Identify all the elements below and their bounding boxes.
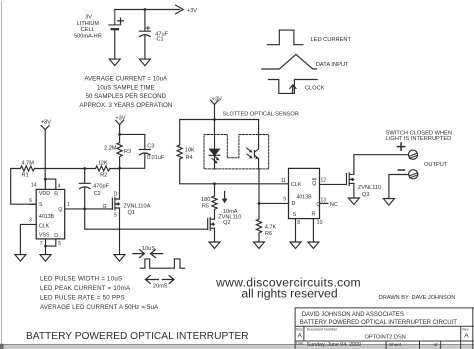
svg-text:500mA-HR: 500mA-HR bbox=[74, 33, 102, 39]
svg-text:1: 1 bbox=[67, 202, 70, 208]
svg-text:4.7K: 4.7K bbox=[265, 225, 277, 231]
svg-text:Rev: Rev bbox=[462, 327, 469, 331]
wire top rail +3V bbox=[115, 9, 180, 11]
svg-text:S: S bbox=[39, 202, 43, 208]
current arrow 10mA bbox=[224, 192, 226, 200]
svg-text:LED CURRENT: LED CURRENT bbox=[311, 37, 352, 43]
ground (R6) bbox=[254, 242, 265, 249]
wire +3V to sensor rail bbox=[214, 105, 216, 120]
svg-text:CLOCK: CLOCK bbox=[305, 85, 325, 91]
power arrow +3V (above R3) bbox=[116, 120, 124, 124]
ground (battery) bbox=[109, 59, 120, 66]
svg-text:Q2: Q2 bbox=[223, 220, 230, 226]
battery B1 3V lithium cell bbox=[109, 10, 121, 25]
svg-text:Q: Q bbox=[312, 181, 316, 187]
waveform DATA INPUT bbox=[262, 54, 317, 69]
resistor R5 180 bbox=[212, 184, 217, 210]
svg-text:BATTERY POWERED OPTICAL INTERR: BATTERY POWERED OPTICAL INTERRUPTER bbox=[26, 331, 249, 342]
wire pins 14/4 bracket bbox=[45, 179, 56, 189]
svg-text:A: A bbox=[298, 333, 303, 340]
svg-text:14: 14 bbox=[31, 183, 37, 189]
svg-text:AVERAGE LED CURRENT A 50Hz = 5: AVERAGE LED CURRENT A 50Hz = 5uA bbox=[40, 304, 159, 311]
svg-text:LIGHT IS INTERRUPTED: LIGHT IS INTERRUPTED bbox=[386, 136, 452, 142]
svg-text:LED PULSE RATE = 50 PPS: LED PULSE RATE = 50 PPS bbox=[40, 295, 125, 302]
wire pin10 to ground bbox=[312, 219, 314, 242]
svg-text:4013B: 4013B bbox=[296, 195, 312, 201]
svg-text:LITHIUM: LITHIUM bbox=[77, 21, 100, 27]
svg-text:Date: Date bbox=[296, 342, 304, 346]
waveform pulse train annotation bbox=[140, 259, 185, 268]
svg-text:Sunday, June 04, 2000: Sunday, June 04, 2000 bbox=[307, 342, 361, 348]
svg-text:DRAWN BY: DAVE JOHNSON: DRAWN BY: DAVE JOHNSON bbox=[379, 295, 455, 301]
svg-text:NC: NC bbox=[330, 202, 338, 208]
wire Q3 source to ground bbox=[353, 183, 355, 198]
waveform LED CURRENT bbox=[267, 30, 303, 45]
resistor R4 10K bbox=[177, 145, 182, 159]
title block table bbox=[295, 308, 474, 349]
ground (pin8) bbox=[290, 242, 301, 249]
svg-text:10uS SAMPLE TIME: 10uS SAMPLE TIME bbox=[97, 84, 155, 91]
svg-text:A: A bbox=[464, 333, 469, 340]
ground (output -) bbox=[383, 199, 394, 206]
svg-text:Size: Size bbox=[296, 327, 303, 331]
transistor Q1 ZVNL110A bbox=[112, 197, 119, 210]
LED D1 in sensor bbox=[214, 120, 216, 150]
IC U1B 4013B box bbox=[289, 168, 320, 218]
wire +3V to VDD bracket bbox=[44, 130, 46, 179]
svg-text:50 SAMPLES PER SECOND: 50 SAMPLES PER SECOND bbox=[86, 93, 167, 100]
svg-text:C2: C2 bbox=[94, 191, 101, 197]
svg-text:10uS: 10uS bbox=[142, 246, 155, 252]
node R3 top junction bbox=[118, 133, 121, 136]
capacitor C3 0.01uF bbox=[120, 150, 151, 169]
wire R3 top to C3 bbox=[120, 134, 145, 149]
svg-text:VDD: VDD bbox=[39, 191, 50, 197]
svg-text:DAVID JOHNSON AND ASSOCIATES: DAVID JOHNSON AND ASSOCIATES bbox=[302, 312, 404, 318]
svg-text:LED PULSE WIDTH = 10uS: LED PULSE WIDTH = 10uS bbox=[40, 275, 122, 282]
svg-text:Q1: Q1 bbox=[128, 210, 135, 216]
svg-text:G: G bbox=[102, 204, 106, 210]
wire Q3 drain to + terminal bbox=[354, 155, 409, 175]
wire pin8 to ground bbox=[295, 219, 297, 242]
svg-text:D: D bbox=[54, 233, 58, 239]
power arrow +3V (top right of battery) bbox=[176, 5, 184, 14]
resistor R2 12K bbox=[96, 166, 110, 171]
svg-text:3: 3 bbox=[29, 217, 32, 223]
svg-text:R: R bbox=[311, 212, 315, 218]
resistor R1 4.7M bbox=[20, 166, 34, 171]
svg-text:CELL: CELL bbox=[81, 27, 95, 33]
node pin7 bracket bbox=[44, 245, 47, 248]
svg-text:Document Number: Document Number bbox=[307, 327, 338, 331]
node VDD bracket junction bbox=[44, 178, 47, 181]
svg-text:9: 9 bbox=[283, 196, 286, 202]
wire pin3 to ground bbox=[20, 224, 36, 254]
svg-text:C1: C1 bbox=[157, 37, 164, 43]
ground (pin10) bbox=[308, 242, 319, 249]
svg-text:10: 10 bbox=[317, 220, 323, 226]
svg-text:12: 12 bbox=[321, 177, 327, 183]
waveform CLOCK bbox=[268, 80, 317, 94]
arrow 20mS right bbox=[162, 276, 174, 284]
capacitor C2 470pF bbox=[79, 169, 90, 209]
svg-text:R5: R5 bbox=[202, 203, 209, 209]
node C2 top junction bbox=[83, 167, 86, 170]
svg-text:+3V: +3V bbox=[212, 96, 222, 102]
node battery/C1 rail junction bbox=[144, 8, 147, 11]
svg-text:D: D bbox=[113, 191, 117, 197]
node R2/R3/C3/Q1-drain junction bbox=[118, 167, 121, 170]
svg-text:SLOTTED OPTICAL SENSOR: SLOTTED OPTICAL SENSOR bbox=[223, 112, 299, 118]
wire phototransistor emitter to D9 bbox=[259, 169, 289, 204]
svg-text:VSS: VSS bbox=[39, 232, 50, 238]
svg-text:D: D bbox=[292, 201, 296, 207]
power arrow +3V (left, VDD) bbox=[41, 125, 49, 129]
wire Q2 gate run bbox=[85, 209, 208, 229]
ground (Q2 source) bbox=[209, 242, 220, 249]
svg-text:+3V: +3V bbox=[41, 120, 51, 126]
wire R1 left to pin6 bbox=[11, 169, 37, 205]
svg-text:7: 7 bbox=[40, 241, 43, 247]
svg-text:BATTERY POWERED OPTICAL INTERR: BATTERY POWERED OPTICAL INTERRUPTER CIRC… bbox=[300, 320, 457, 326]
ground (Q3 source) bbox=[348, 198, 359, 205]
IC U1A 4013B box bbox=[36, 189, 64, 239]
frame corner mark bbox=[0, 344, 4, 349]
svg-text:S: S bbox=[293, 212, 297, 218]
svg-text:4.7M: 4.7M bbox=[22, 161, 35, 167]
ground (C1) bbox=[139, 59, 150, 66]
svg-text:OUTPUT: OUTPUT bbox=[424, 162, 448, 168]
wire R1 feedback rail bbox=[11, 168, 120, 170]
svg-text:DATA INPUT: DATA INPUT bbox=[316, 62, 349, 68]
svg-text:13: 13 bbox=[321, 197, 327, 203]
svg-text:+3V: +3V bbox=[115, 116, 125, 122]
svg-text:ZVNL110: ZVNL110 bbox=[358, 185, 381, 191]
wire +3V to R3 top bbox=[119, 125, 121, 143]
svg-text:8: 8 bbox=[297, 220, 300, 226]
wire R4 bottom to CLK11 bbox=[180, 160, 289, 184]
wire pin1 Q to Q1 gate bbox=[65, 208, 113, 210]
output terminal - bbox=[409, 170, 418, 179]
svg-text:CLK: CLK bbox=[291, 182, 302, 188]
svg-text:Q3: Q3 bbox=[362, 192, 369, 198]
ground (pins 7/5) bbox=[40, 255, 51, 262]
svg-text:6: 6 bbox=[29, 198, 32, 204]
ground (pin3) bbox=[15, 255, 26, 262]
capacitor C1 47uF bbox=[139, 10, 150, 60]
svg-text:2.2M: 2.2M bbox=[104, 146, 117, 152]
output terminal + bbox=[408, 150, 417, 159]
svg-text:CLK: CLK bbox=[39, 224, 50, 230]
transistor Q2 ZVNL110 bbox=[208, 218, 215, 231]
light arrows into phototransistor bbox=[247, 148, 251, 157]
wire sensor top rail bbox=[180, 119, 259, 121]
LED emission arrows bbox=[212, 155, 218, 162]
transistor Q3 ZVNL110 bbox=[347, 173, 354, 186]
wire pin13 NC stub bbox=[320, 202, 329, 204]
svg-text:R3: R3 bbox=[124, 149, 131, 155]
wire Q1 drain/source vertical bbox=[119, 168, 121, 254]
svg-text:11: 11 bbox=[281, 178, 286, 184]
clock arrow bbox=[290, 85, 296, 93]
optocoupler U3 slotted sensor dashed box bbox=[204, 135, 269, 169]
arrow 10uS right bbox=[151, 250, 163, 258]
svg-text:20mS: 20mS bbox=[153, 283, 168, 289]
svg-text:all rights reserved: all rights reserved bbox=[241, 287, 337, 301]
svg-text:Q: Q bbox=[58, 207, 62, 213]
svg-text:R2: R2 bbox=[100, 173, 107, 179]
node LED cathode / R5 junction bbox=[213, 182, 216, 185]
svg-text:Sheet: Sheet bbox=[389, 342, 402, 347]
svg-text:R1: R1 bbox=[22, 172, 29, 178]
svg-text:AVERAGE CURRENT = 10uA: AVERAGE CURRENT = 10uA bbox=[84, 75, 168, 82]
node R6 top / D9 junction bbox=[258, 202, 261, 205]
arrow 20mS left bbox=[146, 276, 159, 284]
svg-text:4: 4 bbox=[58, 183, 61, 189]
power arrow +3V (sensor) bbox=[211, 100, 219, 104]
svg-text:APPROX. 3 YEARS OPERATION: APPROX. 3 YEARS OPERATION bbox=[79, 102, 172, 109]
resistor R6 4.7K bbox=[256, 203, 261, 242]
frame left border bbox=[1, 2, 3, 344]
wire R4 drop bbox=[179, 120, 181, 146]
frame bottom band bbox=[0, 345, 474, 349]
wire pin12 to Q3 gate bbox=[320, 183, 347, 185]
wire - terminal to ground bbox=[389, 175, 409, 199]
svg-text:4013B: 4013B bbox=[39, 214, 55, 220]
svg-text:470pF: 470pF bbox=[93, 183, 109, 189]
svg-text:OPTOINT2.DSN: OPTOINT2.DSN bbox=[365, 335, 406, 341]
svg-text:ZVNL110A: ZVNL110A bbox=[123, 204, 150, 210]
phototransistor in sensor bbox=[254, 120, 258, 169]
ground (Q1 source) bbox=[114, 255, 125, 262]
arrow 10uS left bbox=[133, 250, 145, 258]
svg-text:R6: R6 bbox=[265, 231, 272, 237]
svg-text:5: 5 bbox=[58, 241, 61, 247]
resistor R3 2.2M bbox=[117, 143, 122, 169]
wire pin6 stub bbox=[30, 203, 36, 205]
wire Q2 drain/source vertical bbox=[214, 209, 216, 242]
wire pins 7/5 bracket bbox=[46, 239, 56, 255]
svg-text:12K: 12K bbox=[98, 160, 108, 166]
svg-text:LED PEAK CURRENT = 10mA: LED PEAK CURRENT = 10mA bbox=[40, 285, 131, 292]
svg-text:R: R bbox=[54, 192, 58, 198]
svg-text:C3: C3 bbox=[147, 144, 154, 150]
node C2 bottom / Q2-gate drop bbox=[83, 208, 86, 211]
svg-text:R4: R4 bbox=[186, 155, 193, 161]
svg-text:+3V: +3V bbox=[187, 8, 197, 14]
svg-text:0.01uF: 0.01uF bbox=[147, 155, 165, 161]
frame bottom line bbox=[0, 344, 474, 346]
node sensor rail junction bbox=[213, 118, 216, 121]
svg-text:S: S bbox=[113, 213, 117, 219]
svg-text:180: 180 bbox=[201, 197, 210, 203]
svg-text:3V: 3V bbox=[85, 15, 92, 21]
svg-text:10K: 10K bbox=[185, 148, 195, 154]
